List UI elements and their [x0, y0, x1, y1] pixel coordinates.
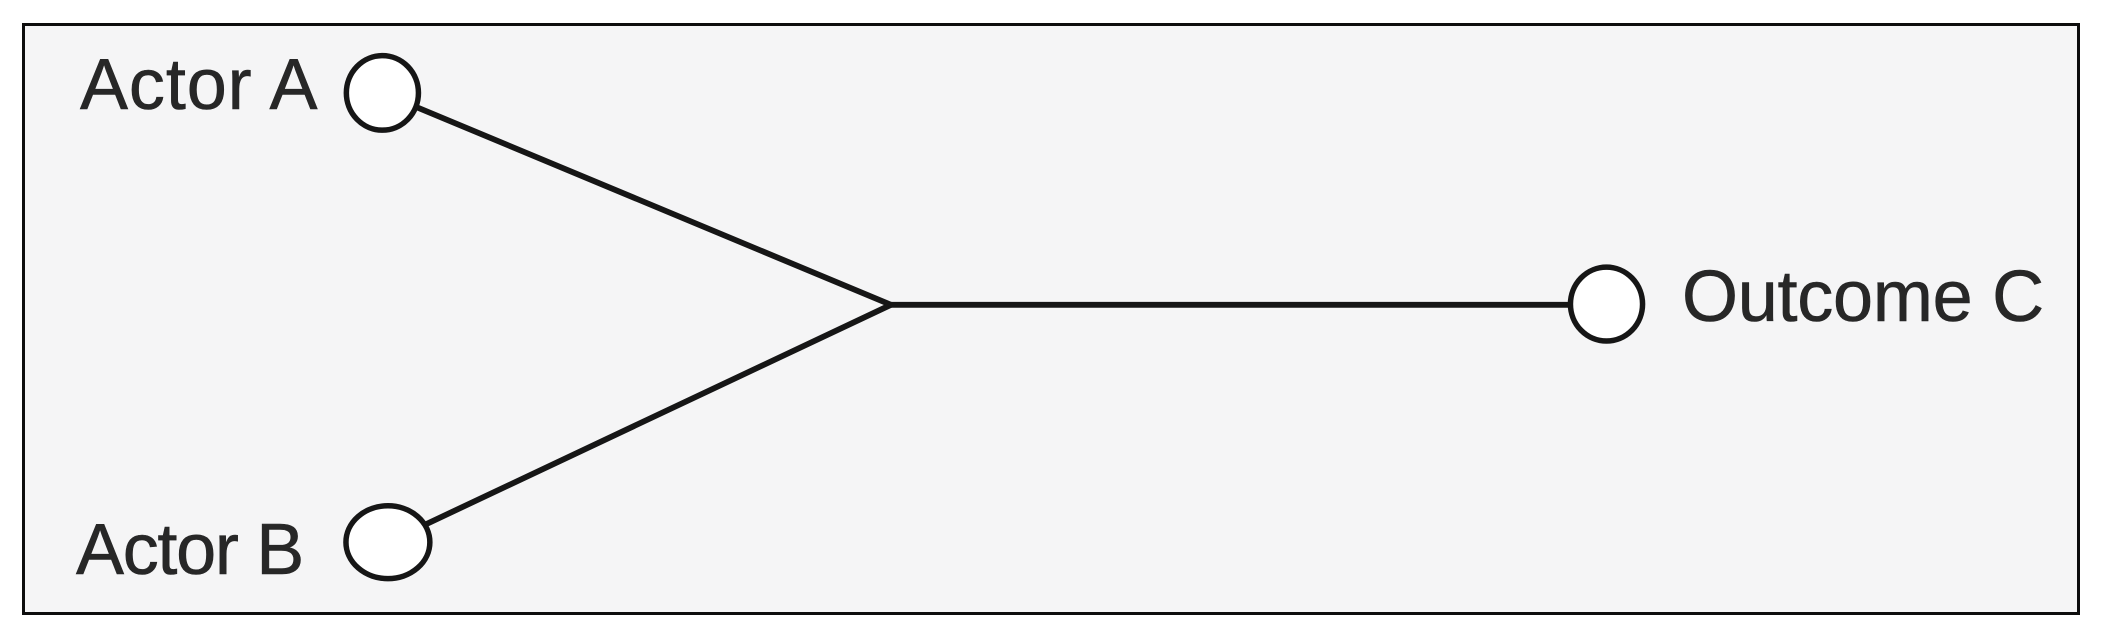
- svg-text:Outcome C: Outcome C: [1682, 257, 2044, 337]
- svg-text:Actor A: Actor A: [80, 45, 318, 125]
- svg-text:Actor B: Actor B: [76, 510, 303, 590]
